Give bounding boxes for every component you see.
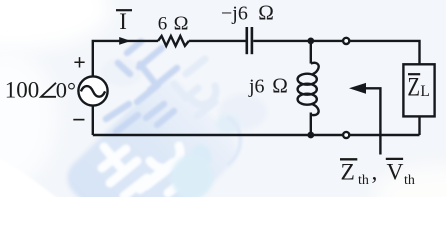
angle symbol: [41, 83, 56, 97]
inductor branch vertical top: [310, 41, 312, 64]
svg-text:I: I: [119, 9, 127, 34]
wire bottom rail up to source bottom: [92, 106, 94, 136]
watermark faint side blobs: [219, 94, 267, 130]
svg-text:Z: Z: [341, 160, 355, 186]
inductor coil loop 2: [298, 84, 317, 95]
watermark cyan blob: [191, 144, 211, 167]
wire: source top, left vertical, top-left rail: [93, 41, 158, 77]
svg-text:−: −: [72, 108, 86, 134]
svg-text:Ω: Ω: [258, 1, 274, 25]
watermark cyan swath bottom: [171, 155, 213, 199]
probe arrow line: [363, 88, 380, 154]
svg-text:,: ,: [372, 160, 378, 186]
inductor coil loop 1: [298, 74, 317, 85]
overbar of Zth: [340, 158, 357, 160]
svg-text:V: V: [387, 160, 404, 186]
svg-text:Ω: Ω: [272, 74, 288, 98]
svg-text:L: L: [420, 83, 429, 100]
inductor coil exit hook: [311, 104, 319, 115]
inductor coil entry hook: [311, 63, 319, 74]
junction dot bottom: [307, 132, 314, 139]
watermark blue glyph strokes (upper): [106, 42, 177, 133]
svg-text:−j6: −j6: [221, 3, 248, 25]
inductor coil loop 3: [298, 94, 317, 105]
terminal circle top: [343, 38, 349, 44]
probe arrow head: [349, 83, 366, 94]
svg-text:6: 6: [158, 14, 168, 35]
inductor branch vertical bottom: [310, 113, 312, 136]
svg-text:th: th: [358, 173, 369, 188]
svg-text:+: +: [73, 49, 86, 74]
watermark white glyph strokes on tile: [102, 146, 186, 196]
white corner wedge bottom-left: [0, 155, 60, 200]
bottom rail: [93, 134, 420, 136]
overbar of Vth: [386, 158, 403, 160]
svg-text:Ω: Ω: [174, 13, 189, 35]
capacitor C -j6ohm left plate: [246, 27, 249, 54]
capacitor right plate: [251, 27, 254, 54]
sine wave inside source: [81, 86, 105, 97]
watermark faint blue strokes (right): [174, 59, 216, 116]
svg-text:0°: 0°: [56, 77, 76, 102]
svg-text:j6: j6: [248, 76, 265, 98]
svg-text:100: 100: [5, 77, 40, 102]
ZL box: [403, 64, 434, 116]
current arrow head: [119, 37, 131, 45]
wire resistor to capacitor: [189, 40, 246, 42]
svg-text:Z: Z: [407, 73, 420, 102]
overbar of Z in box: [408, 73, 420, 75]
junction dot top: [307, 38, 314, 45]
watermark tile (light blue, rotated): [59, 72, 245, 240]
wire capacitor to top-right corner and down to ZL box: [253, 41, 419, 64]
tile corner arc hint: [227, 117, 240, 165]
wire ZL box bottom to bottom rail: [418, 116, 420, 135]
svg-text:th: th: [404, 173, 415, 188]
overbar of I: [116, 9, 132, 11]
label 100: [5, 77, 76, 102]
source circle: [78, 76, 107, 105]
resistor R 6ohm: [158, 36, 189, 46]
terminal circle bottom: [343, 132, 349, 138]
